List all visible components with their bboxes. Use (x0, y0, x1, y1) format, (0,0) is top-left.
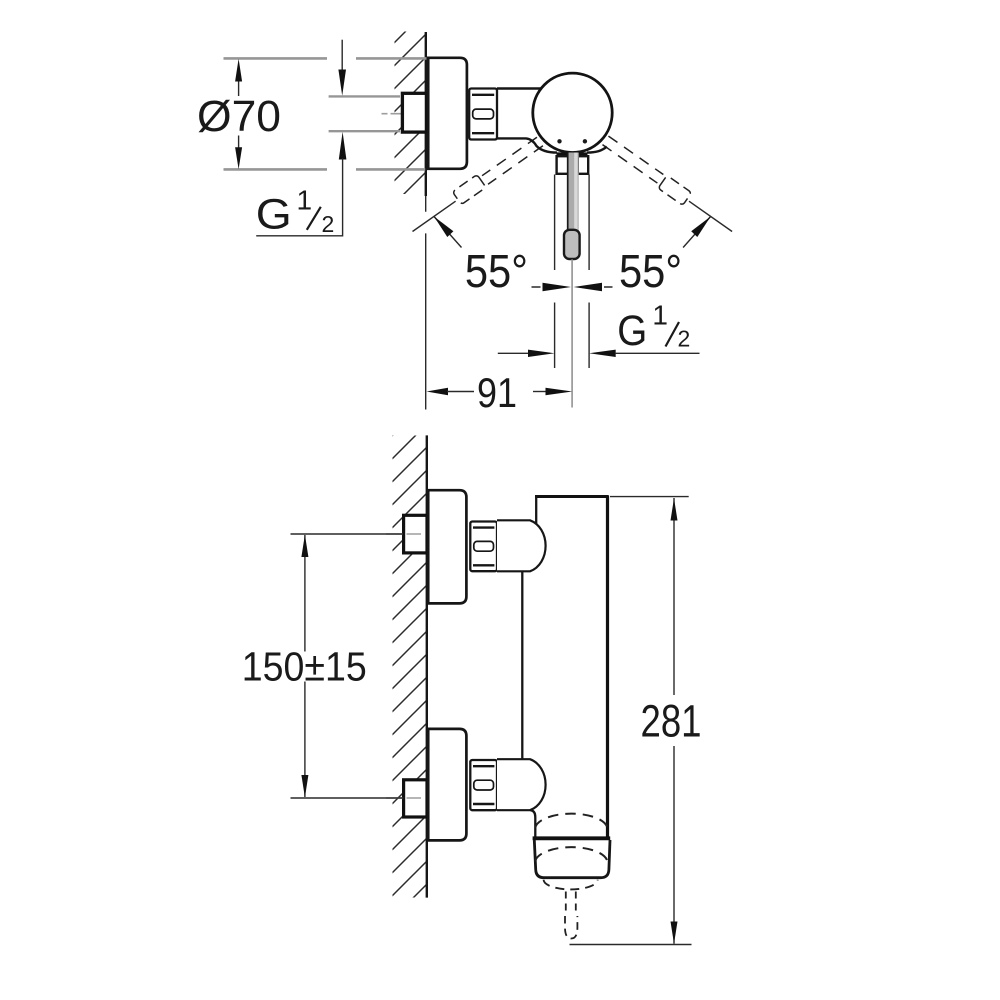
hidden water outlet / drop (dashed) (566, 892, 576, 912)
escutcheon (wall plate, top view) (428, 58, 467, 169)
svg-text:55°: 55° (465, 245, 528, 297)
knob dots (557, 139, 561, 143)
svg-text:G: G (617, 307, 647, 355)
G 1/2 text right (617, 300, 690, 356)
upper in-wall union nut (404, 515, 427, 553)
svg-text:1: 1 (297, 185, 313, 216)
supply pipe centerline dashes (382, 113, 419, 115)
svg-text:91: 91 (477, 369, 517, 416)
lever bracket right block (578, 156, 588, 174)
knob circle (cartridge cap) (533, 73, 612, 152)
upper union centerline dashes (386, 533, 421, 535)
connector hex nut (top view) (469, 89, 497, 140)
lower connector hex nut (470, 760, 497, 810)
wall union nut (in-wall, bold) (402, 93, 426, 132)
ghost lever rotated left 55° (dashed) (452, 134, 543, 204)
91 dimension line and arrows (427, 388, 449, 395)
svg-text:150±15: 150±15 (242, 644, 367, 690)
G 1/2 top-left dimension arrows (341, 40, 343, 71)
lower inlet fitting (dome cap) (497, 759, 546, 810)
svg-text:1: 1 (652, 300, 668, 331)
lever bracket left block (557, 156, 569, 174)
G1/2 extension lines below lever (555, 175, 590, 369)
svg-text:2: 2 (678, 326, 691, 352)
body right edge (bold) (606, 496, 609, 838)
lower union centerline dashes (386, 797, 421, 799)
lever shaft (567, 153, 578, 231)
svg-text:281: 281 (641, 695, 702, 746)
dim 281 line (673, 498, 675, 944)
wall hatch (top view) (395, 32, 426, 195)
hidden circle dashed arc (body) (535, 814, 607, 828)
shower outlet cup top (bold) (533, 836, 611, 840)
dim Ø70 arrows (238, 80, 240, 148)
upper escutcheon (428, 490, 466, 603)
svg-text:G: G (256, 191, 292, 239)
svg-text:55°: 55° (619, 245, 682, 297)
supply pipe thread lines (gray) (329, 96, 400, 131)
dim 150±15 extension lines (291, 534, 404, 798)
dim 281 arrows (671, 498, 678, 520)
dim Ø70 extension line bottom (gray) (224, 168, 426, 171)
ghost lever rotated right 55° (dashed) (600, 135, 691, 205)
body left edge middle segment (521, 571, 523, 759)
hidden circle dashed arc (cup) (535, 847, 607, 861)
wall line (side view) (426, 435, 428, 897)
dim 150±15 arrows (301, 535, 308, 557)
dim 150±15 line (304, 535, 306, 797)
wall hatch (side view) (393, 436, 427, 898)
svg-text:Ø70: Ø70 (197, 92, 281, 141)
lever bracket top bar (557, 152, 588, 155)
G 1/2 right dimension (498, 352, 530, 354)
55° ray right (solid) (689, 201, 732, 231)
lever centerline below (571, 260, 573, 408)
55° leader + arrowhead left (434, 217, 462, 248)
lower escutcheon (428, 729, 466, 841)
body left edge lower segment (531, 810, 536, 836)
body left edge upper segment (535, 495, 537, 523)
dim 281 extension lines (570, 497, 692, 945)
faucet body (top view) (497, 87, 541, 90)
upper connector hex nut (470, 522, 497, 572)
upper inlet fitting (dome cap) (497, 520, 546, 571)
55° leader + arrowhead right (683, 217, 711, 248)
55° ray left (solid) (413, 201, 456, 231)
wall line (top view) (425, 32, 427, 196)
dim Ø70 extension line top (gray) (224, 57, 427, 60)
shower outlet cup (534, 840, 610, 878)
91 dimension wall extension line (425, 196, 427, 410)
svg-text:2: 2 (322, 211, 335, 237)
lever width arrows (meeting at centerline) (543, 283, 572, 291)
lower in-wall union nut (404, 780, 427, 817)
lever tip (564, 230, 580, 259)
G 1/2 text top-left (256, 185, 334, 239)
hidden aerator dashed arc below cup (544, 880, 598, 890)
body top edge (535, 495, 609, 498)
